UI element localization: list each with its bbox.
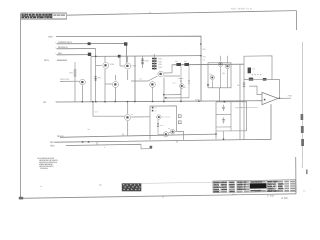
vertical wire x96 (95, 49, 97, 103)
box B0 outline lower-left (150, 106, 177, 140)
faint line from parts block to title block (141, 182, 213, 183)
wire y94.5 (164, 94, 181, 96)
svg-text:xn: xn (154, 107, 156, 110)
transistor Q9 (210, 75, 214, 79)
resistor R8 vertical (188, 66, 190, 98)
box B1 outline (208, 63, 231, 88)
wire W5 input stub (57, 59, 67, 61)
box B1 inner wires (212, 67, 227, 88)
svg-text:xn xnnxn: xn xnnxn (162, 116, 170, 119)
wire mid rail y56 (91, 55, 201, 58)
resistor R1 (94, 76, 96, 81)
resistor R7 vertical (180, 66, 182, 95)
transistor Q5 (120, 56, 131, 80)
parts list stamp block (122, 182, 213, 191)
junction dots (82, 43, 225, 142)
box B2 outline (244, 56, 272, 140)
resistor R3 (74, 62, 77, 78)
svg-text:n: n (104, 146, 105, 149)
wire main rail y102 (56, 101, 263, 102)
diode stack CR3 (152, 58, 157, 70)
transistor Q8 (225, 64, 230, 69)
notes block bottom-left (37, 157, 58, 170)
transistor Q14 (150, 82, 156, 102)
svg-text:xn: xn (104, 144, 106, 147)
vertical wire x91 (90, 57, 92, 103)
op-amp U1 (249, 86, 291, 105)
svg-text:xnn: xnn (139, 77, 142, 80)
wire W6 lower rail (60, 134, 216, 137)
resistor R6 horizontal (184, 63, 189, 66)
thermistor RT1 (248, 68, 251, 74)
svg-text:XNN: XNN (50, 144, 55, 147)
box B3 outline (215, 102, 217, 139)
wire x279.5 feedback vertical (279, 79, 281, 98)
capacitor C4 in box B3 (222, 117, 225, 123)
junction dot output node (279, 98, 280, 99)
op-amp upper input wire (249, 86, 262, 94)
svg-text:RLNWK-N: RLNWK-N (58, 46, 68, 49)
wire x120 vertical (119, 56, 121, 66)
wire x135 vertical (134, 56, 136, 102)
junction dot x96 rail (95, 56, 97, 58)
svg-text:XNKWN LN KXN: XNKWN LN KXN (250, 181, 262, 184)
wire stub below W7 (141, 144, 152, 149)
fold line pin blobs (301, 114, 304, 146)
svg-text:n. xnn: n. xnn (267, 195, 275, 198)
wire W2 (57, 43, 127, 62)
svg-text:X NKWNL: X NKWNL (40, 167, 49, 170)
junction dots top of box B0 (152, 107, 154, 109)
svg-text:XNN: XNN (110, 63, 115, 66)
wire W3 (57, 48, 96, 50)
svg-text:xnn: xnn (252, 68, 255, 71)
resistor R11 on box B2 left (243, 83, 245, 87)
transistor Q13 (125, 102, 150, 136)
varistor VR1 (180, 84, 185, 89)
wire W9 lowest stub (66, 144, 141, 145)
dashed wire from RT1 (252, 74, 262, 76)
svg-text:xn: xn (131, 113, 133, 116)
resistor R4 (141, 56, 144, 68)
thermal switch S1 (150, 146, 153, 148)
terminal E1 (178, 115, 181, 118)
tick mark on top border (149, 12, 151, 14)
junction dot on rail at B3 top (224, 101, 226, 103)
svg-text:xnn xn: xnn xn (178, 77, 184, 80)
junction dot Q14 rail (152, 101, 153, 102)
transistor Q7 (218, 62, 223, 67)
svg-text:nxx: nxx (240, 106, 243, 109)
wire W1 top rail (56, 36, 201, 101)
svg-text:NKN N: NKN N (57, 135, 64, 138)
diode CR1 on W2 (88, 42, 91, 45)
resistor R5 horizontal (176, 63, 181, 66)
lower rail labels (50, 135, 64, 147)
diode CR5 on rail (118, 55, 121, 58)
wire under op-amp (235, 107, 258, 109)
box B3 center divider (230, 102, 232, 131)
box B3 divider 2 (216, 126, 231, 128)
svg-text:xnn: xnn (173, 81, 176, 84)
ECN stamp top-left (21, 13, 67, 20)
svg-text:NNK: NNK (145, 60, 150, 63)
wire y79.5 feedback rail (244, 78, 280, 80)
svg-text:XNK WNL NK N: XNK WNL NK N (267, 189, 278, 192)
svg-text:A 5m: A 5m (280, 196, 288, 200)
stub W7 to W9 (96, 142, 98, 145)
wire VR1 to rail (180, 88, 182, 101)
wire x164 down (163, 78, 165, 102)
op-amp output wire (278, 97, 291, 99)
sheet border frame (20, 11, 296, 199)
svg-text:NK: NK (203, 48, 207, 51)
svg-text:NNL-WNK-XLN: NNL-WNK-XLN (231, 8, 252, 11)
corner blob bottom-left (19, 197, 23, 200)
svg-text:nx: nx (154, 110, 156, 113)
box B2 left edge (239, 64, 241, 139)
transistor Q6 (131, 71, 180, 81)
svg-text:NK N: NK N (44, 59, 49, 62)
wire from box B1 down to rail (219, 88, 221, 102)
capacitor C3 in box B3 (222, 105, 225, 111)
transistor Q2 (96, 56, 109, 101)
wire W4 input stub (57, 54, 90, 56)
diode CR4 on W2 bend (124, 42, 127, 45)
diode CR2 on W4 (88, 53, 91, 56)
svg-text:XN: XN (203, 56, 206, 59)
svg-text:XNN: XNN (288, 95, 293, 98)
title block (213, 180, 296, 194)
svg-text:xn: xn (40, 185, 42, 188)
resistor R10 on y79.5 (263, 78, 267, 81)
svg-text:NKWX LN XNK: NKWX LN XNK (250, 189, 261, 192)
terminal E2 (178, 121, 181, 124)
title block row density bars (213, 181, 295, 193)
svg-text:LWN: LWN (48, 35, 53, 38)
wire bias rail y64.5 (172, 63, 244, 66)
tick on W6 (122, 133, 124, 136)
resistor R13 (157, 119, 159, 128)
wire stubs into box B1 (220, 56, 222, 61)
svg-text:xn: xn (184, 86, 186, 89)
svg-text:xnn: xnn (160, 124, 163, 127)
fold mark right margin (306, 170, 308, 175)
svg-text:nx: nx (168, 127, 170, 130)
connector pin ticks (56, 43, 58, 103)
svg-text:XN KWN LN: XN KWN LN (237, 188, 246, 191)
wire y97.7 (164, 97, 189, 99)
transistor Q3 (60, 79, 85, 102)
box B0 bottom jog (177, 131, 184, 140)
transistor Q11 (163, 132, 168, 137)
centering tick bottom border (162, 195, 164, 197)
stray dash (99, 184, 102, 187)
paper fold line right (301, 42, 303, 168)
title block solid name plate (250, 183, 267, 188)
svg-text:XWNKR LNK-X: XWNKR LNK-X (58, 41, 72, 44)
box B3 bottom (216, 130, 247, 132)
svg-text:NN: NN (98, 77, 102, 80)
svg-text:XNN: XNN (132, 65, 137, 68)
wire y116 to Q13 (93, 115, 125, 117)
transistor Q12 (170, 129, 175, 134)
wire x93 vertical (92, 102, 94, 116)
box B3 divider 1 (216, 114, 231, 116)
tick below W7 (176, 140, 178, 143)
svg-text:NKX N XN: NKX N XN (60, 78, 69, 81)
wire from box B3 bottom to W7 (223, 131, 225, 139)
resistor R9 on y79.5 (249, 78, 253, 81)
transistor Q4 (105, 75, 119, 102)
wire W7 bottom rail (55, 104, 271, 142)
diode stack CR3 labels (158, 58, 162, 69)
box B0 inner wires (158, 128, 177, 134)
input signal labels left column (43, 35, 72, 104)
svg-text:NK N: NK N (50, 141, 55, 144)
transistor Q10 (157, 115, 161, 119)
wire step up right of Q6 (171, 65, 173, 73)
svg-text:NN: NN (70, 72, 74, 75)
